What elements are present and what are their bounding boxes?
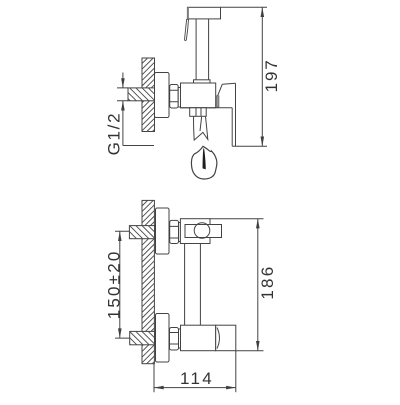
sprayer holder arm (side view) (185, 225, 222, 238)
top valve body (side view) (180, 219, 210, 244)
top supply pipe (hatched) (129, 226, 154, 239)
wall plate (side view, hatched) (142, 200, 154, 363)
dimension 114: left extension line (153, 364, 155, 392)
water stream inner fold line (200, 117, 202, 131)
bottom supply pipe (hatched) (130, 331, 155, 344)
dimension 150±20: dimension line (119, 231, 121, 338)
handle lever right edge (235, 83, 237, 146)
bottom washer (179, 329, 181, 348)
svg-text:150±20: 150±20 (105, 249, 124, 319)
aerator / outlet nut under body (190, 108, 207, 117)
bottom hex nut (side view) (170, 328, 179, 351)
pipe flange at body top (194, 80, 211, 83)
sprayer head thick left edge (187, 7, 189, 19)
washer between nut and body (178, 88, 180, 108)
bottom escutcheon (side view) (156, 314, 170, 363)
dimension 186: bottom extension line (236, 350, 264, 352)
svg-text:114: 114 (180, 369, 214, 388)
handle lever diagonal left edge (218, 84, 223, 96)
sprayer head (top, horizontal) (187, 7, 220, 19)
connection hex nut (front view) (170, 85, 179, 109)
top washer (179, 223, 181, 242)
dimension 186: top extension line (210, 218, 264, 220)
top hex nut (side view) (170, 220, 179, 243)
dimension G1/2: extension lines (117, 88, 128, 101)
escutcheon plate (front view) (155, 73, 170, 118)
dimension 186: dimension line (257, 219, 259, 351)
handle tail (downward lever) (231, 108, 233, 146)
water droplet inner dark wedge (203, 148, 206, 169)
dimension 197: top arrowhead (261, 7, 265, 17)
handle end cap (side view) (216, 325, 236, 351)
handle end cap arc (217, 328, 219, 349)
dimension 150±20: top arrowhead (118, 231, 122, 241)
dimension 150±20: extension lines (115, 231, 130, 338)
svg-text:197: 197 (262, 58, 281, 92)
dimension 186: top arrowhead (256, 219, 260, 229)
dimension 197: bottom extension line (232, 145, 267, 147)
svg-text:G1/2: G1/2 (104, 112, 123, 156)
dimension 114: dimension line (154, 387, 236, 389)
body and handle hood bottom edge (181, 107, 233, 109)
water stream ribbon (194, 116, 208, 140)
dimension G1/2: upper arrow (points down) (122, 73, 124, 88)
sprayer trigger lever (185, 19, 189, 40)
dimension 197: dimension line (261, 7, 263, 146)
water droplet outline (191, 146, 216, 179)
inlet pipe G1/2 (hatched section through wall) (128, 88, 155, 101)
bottom valve body (side view) (181, 325, 216, 351)
dimension G1/2: lower arrow (points up) with foot (123, 101, 154, 146)
riser pipe to sprayer (front view) (196, 19, 209, 80)
svg-text:186: 186 (258, 265, 277, 300)
handle lever top edge (222, 83, 235, 84)
riser pipe (side view) (185, 244, 201, 326)
dimension 186: bottom arrowhead (256, 341, 260, 351)
top escutcheon (side view) (156, 208, 170, 254)
wall plate (front view, hatched) (142, 58, 155, 132)
mixer valve body (front view) (181, 83, 216, 108)
dimension 197: bottom arrowhead (261, 137, 265, 147)
dimension 197: top extension line (221, 6, 268, 8)
dimension 150±20: bottom arrowhead (118, 328, 122, 338)
dimension 114: right extension line (235, 351, 237, 393)
sprayer holder ring (circle, side view) (194, 223, 210, 239)
dimension 114: right arrowhead (226, 386, 236, 390)
valve stem (grey) (217, 96, 219, 107)
dimension 114: left arrowhead (154, 386, 164, 390)
